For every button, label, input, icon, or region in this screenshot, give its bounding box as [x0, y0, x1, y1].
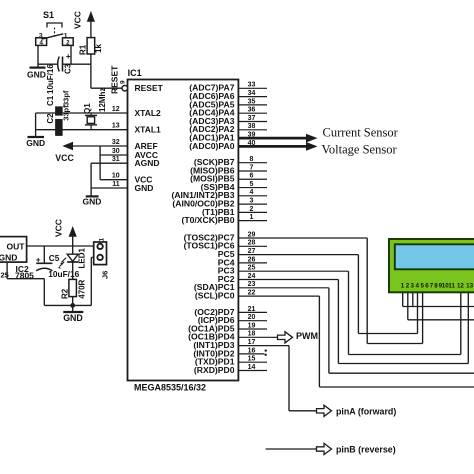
VCC arrow head: [87, 11, 95, 22]
pin 22 (SCL)PC0: [238, 295, 319, 297]
svg-text:C2: C2: [46, 113, 55, 124]
svg-text:4: 4: [250, 189, 254, 196]
wire crystal bottom: [90, 125, 92, 130]
svg-text:GND: GND: [63, 313, 83, 323]
arrow head: [306, 134, 318, 143]
wire PC5 pin27 to LCD pin4: [357, 255, 359, 334]
svg-text:26: 26: [248, 256, 256, 263]
svg-text:LED1: LED1: [77, 248, 86, 269]
wire XTAL1 net: [36, 129, 128, 131]
node GND rail: [90, 163, 92, 196]
wire LED to R2: [72, 262, 74, 279]
arrow head: [306, 142, 318, 151]
svg-text:32: 32: [112, 139, 120, 146]
pin 27 PC5: [238, 254, 358, 256]
VCC arrow left: [62, 142, 73, 150]
wire S1 pin4 to GND: [37, 45, 39, 67]
regulator IC2 7805: [0, 237, 27, 263]
pin 25 PC3: [238, 270, 348, 272]
svg-text:VCC: VCC: [54, 219, 64, 237]
svg-text:AGND: AGND: [135, 158, 160, 168]
node marks near pin 16: [265, 349, 267, 351]
wire reset net: [38, 63, 58, 65]
svg-text:Current Sensor: Current Sensor: [323, 126, 399, 140]
svg-text:14: 14: [248, 364, 256, 371]
pin 5 (SS)PB4: [238, 187, 267, 189]
pin 8 (SCK)PB7: [238, 162, 267, 164]
pin 23 (SDA)PC1: [238, 287, 329, 289]
svg-text:8: 8: [250, 156, 254, 163]
svg-text:5: 5: [250, 181, 254, 188]
switch lever: [42, 34, 64, 39]
svg-text:3: 3: [410, 283, 414, 290]
wire PC1 pin23: [328, 288, 330, 373]
svg-text:J6: J6: [100, 271, 109, 279]
svg-text:10uF/16: 10uF/16: [48, 269, 79, 279]
pin 19 (OC1A)PD5: [238, 328, 267, 330]
svg-text:4: 4: [39, 39, 43, 46]
svg-text:7: 7: [250, 164, 254, 171]
svg-text:+: +: [66, 52, 71, 61]
wire R1 to RESET pin: [90, 54, 92, 88]
svg-text:S1: S1: [43, 10, 54, 20]
wire pinA from pin 17: [288, 346, 290, 411]
svg-text:30: 30: [112, 148, 120, 155]
pin 14 (RXD)PD0: [238, 370, 267, 372]
resistor R2: [69, 279, 77, 296]
node junction dot: [70, 303, 75, 308]
svg-text:GND: GND: [83, 197, 102, 207]
svg-text:(RXD)PD0: (RXD)PD0: [194, 365, 235, 375]
svg-text:PWM: PWM: [296, 331, 318, 341]
svg-text:VCC: VCC: [55, 153, 74, 163]
svg-text:RESET: RESET: [135, 83, 164, 93]
pin 29 (TOSC2)PC7: [238, 237, 367, 239]
PWM open arrow: [278, 332, 293, 343]
svg-text:OUT: OUT: [7, 241, 26, 251]
light arrow 2: [58, 266, 61, 269]
ground (reset): [30, 66, 46, 68]
pin 4 (AIN1/INT2)PB3: [238, 195, 267, 197]
pin 35 (ADC5)PA5: [238, 104, 267, 106]
svg-text:RESET: RESET: [110, 65, 120, 94]
svg-text:XTAL1: XTAL1: [135, 125, 162, 135]
svg-text:22: 22: [248, 290, 256, 297]
svg-text:Q1: Q1: [83, 103, 92, 114]
wire C5 top: [43, 246, 45, 263]
ground (crystal): [28, 136, 45, 138]
svg-text:VCC: VCC: [73, 11, 83, 29]
svg-text:6: 6: [250, 173, 254, 180]
svg-text:35: 35: [248, 98, 256, 105]
wire PC3 pin25 to LCD pin12: [348, 271, 350, 354]
svg-text:6: 6: [425, 283, 429, 290]
svg-text:10uF/16: 10uF/16: [46, 64, 55, 94]
svg-text:11: 11: [448, 283, 455, 290]
pinB open arrow: [317, 443, 332, 454]
wire GND pin11: [91, 187, 127, 189]
ground (pin11): [86, 195, 99, 197]
wire LED anode: [72, 246, 74, 254]
wire pinB: [266, 448, 317, 450]
svg-text:24: 24: [248, 273, 256, 280]
IC U1 MEGA8535/16/32: [128, 80, 239, 381]
node VCC rail: [99, 146, 101, 180]
ground (LED): [72, 305, 74, 311]
svg-text:pinA (forward): pinA (forward): [336, 406, 396, 416]
svg-text:(SCL)PC0: (SCL)PC0: [195, 291, 235, 301]
power VCC (5V rail): [72, 233, 74, 247]
pin 21 (OC2)PD7: [238, 311, 267, 313]
svg-text:18: 18: [248, 331, 256, 338]
pin 28 (TOSC1)PC6: [238, 245, 267, 247]
pin 9 RESET (left): [122, 85, 128, 91]
svg-text:4: 4: [415, 283, 419, 290]
svg-text:(T0/XCK)PB0: (T0/XCK)PB0: [181, 215, 234, 225]
svg-text:5: 5: [420, 283, 424, 290]
svg-text:(ADC0)PA0: (ADC0)PA0: [189, 141, 234, 151]
light arrow 1: [60, 262, 63, 265]
pin 24 PC2: [238, 279, 338, 281]
svg-text:XTAL2: XTAL2: [135, 108, 162, 118]
pin 15 (TXD)PD1: [238, 361, 267, 363]
svg-text:27: 27: [248, 248, 256, 255]
svg-text:33pf: 33pf: [62, 90, 71, 106]
svg-text:MEGA8535/16/32: MEGA8535/16/32: [134, 383, 206, 393]
pin 37 (ADC3)PA3: [238, 121, 267, 123]
svg-text:GND: GND: [26, 138, 45, 148]
capacitor C1: [55, 107, 62, 116]
pin 20 (ICP)PD6: [238, 320, 267, 322]
svg-text:2: 2: [66, 39, 70, 46]
pin 7 (MISO)PB6: [238, 170, 267, 172]
svg-text:13: 13: [466, 283, 473, 290]
LCD screen: [395, 244, 474, 269]
switch pad 2: [63, 38, 74, 46]
svg-text:9: 9: [119, 80, 126, 84]
svg-text:21: 21: [248, 306, 256, 313]
svg-text:12Mhz: 12Mhz: [98, 88, 107, 112]
wire left rail to ground: [35, 113, 37, 137]
svg-text:GND: GND: [135, 183, 154, 193]
wire AGND: [91, 162, 127, 164]
wire ground rail: [44, 304, 91, 306]
svg-text:20: 20: [248, 314, 256, 321]
svg-text:37: 37: [248, 115, 256, 122]
pin 36 (ADC4)PA4: [238, 112, 267, 114]
svg-text:+: +: [36, 256, 41, 265]
switch pad 4: [36, 38, 47, 46]
svg-text:C5: C5: [49, 253, 60, 263]
svg-text:34: 34: [248, 90, 256, 97]
svg-text:12: 12: [112, 106, 120, 113]
svg-text:33pf: 33pf: [62, 105, 71, 121]
LED cathode bar: [67, 261, 78, 263]
wire S1 pin2 down: [70, 45, 72, 64]
VCC arrow head: [69, 226, 77, 237]
svg-text:R1: R1: [78, 44, 87, 55]
svg-text:C3: C3: [63, 63, 72, 74]
pinA open arrow: [317, 405, 332, 416]
svg-text:470R: 470R: [77, 279, 86, 298]
svg-text:33: 33: [248, 82, 256, 89]
capacitor C2: [55, 119, 62, 135]
svg-text:7: 7: [430, 283, 434, 290]
pin 17 (INT1)PD3: [238, 345, 289, 347]
pin 34 (ADC6)PA6: [238, 96, 267, 98]
svg-text:R2: R2: [61, 288, 70, 299]
svg-text:29: 29: [248, 231, 256, 238]
pin 33 (ADC7)PA7: [238, 87, 267, 89]
svg-text:IC1: IC1: [128, 68, 142, 78]
pin 18 (OC1B)PD4: [238, 336, 277, 338]
LCD module body: [389, 239, 474, 292]
wire 7805 OUT net: [27, 245, 94, 247]
pin 2 (T1)PB1: [238, 211, 267, 213]
wire to J6 pin2: [90, 257, 92, 305]
svg-text:1: 1: [250, 214, 254, 221]
wire Voltage Sensor arrow (pin 40): [238, 145, 307, 148]
wire VCC pin10: [100, 179, 127, 181]
pin 3 (AIN0/OC0)PB2: [238, 203, 267, 205]
svg-text:2: 2: [406, 283, 410, 290]
wire Current Sensor arrow (pin 39): [238, 137, 307, 140]
svg-text:38: 38: [248, 123, 256, 130]
svg-text:3: 3: [250, 198, 254, 205]
wire R2 bottom: [72, 297, 74, 306]
svg-text:1: 1: [98, 238, 105, 242]
svg-text:2: 2: [250, 206, 254, 213]
svg-text:25: 25: [248, 265, 256, 272]
wire LCD pin2 net: [407, 293, 409, 320]
svg-text:10: 10: [112, 173, 120, 180]
capacitor C3: [58, 57, 60, 72]
wire crystal top: [90, 113, 92, 115]
wire XTAL2 net: [36, 112, 128, 114]
pin 16 (INT0)PD2: [238, 353, 264, 355]
svg-text:15: 15: [248, 356, 256, 363]
crystal Q1: [87, 117, 94, 124]
resistor R1: [87, 38, 95, 54]
svg-text:GND: GND: [0, 253, 17, 263]
svg-text:36: 36: [248, 107, 256, 114]
svg-text:19: 19: [248, 322, 256, 329]
svg-text:1k: 1k: [94, 44, 103, 53]
svg-text:C1: C1: [46, 95, 55, 106]
svg-text:31: 31: [112, 156, 120, 163]
svg-text:pinB (reverse): pinB (reverse): [336, 445, 396, 455]
wire PC2 pin24 to LCD pin13: [337, 280, 339, 364]
power VCC (AREF feed): [73, 145, 128, 147]
pin 1 (T0/XCK)PB0: [238, 220, 267, 222]
pin 38 (ADC2)PA2: [238, 129, 267, 131]
svg-text:11: 11: [112, 181, 120, 188]
connector J6: [94, 242, 107, 265]
wire PC7 pin29 to LCD pin5: [366, 238, 368, 344]
svg-text:16: 16: [248, 347, 256, 354]
svg-text:12: 12: [457, 283, 464, 290]
svg-text:1: 1: [401, 283, 405, 290]
wire PC0 pin22: [318, 296, 320, 387]
pin 6 (MOSI)PB5: [238, 178, 267, 180]
power VCC (reset pull-up): [90, 22, 92, 38]
wire 7805 GND pin: [6, 262, 8, 279]
svg-text:28: 28: [248, 240, 256, 247]
wire AVCC: [100, 154, 127, 156]
svg-text:13: 13: [112, 123, 120, 130]
svg-text:GND: GND: [27, 70, 46, 80]
pin 26 PC4: [238, 262, 267, 264]
svg-text:17: 17: [248, 339, 256, 346]
wire LCD pin1/pin3 net: [402, 293, 404, 307]
svg-text:23: 23: [248, 281, 256, 288]
svg-text:Voltage Sensor: Voltage Sensor: [322, 142, 398, 156]
